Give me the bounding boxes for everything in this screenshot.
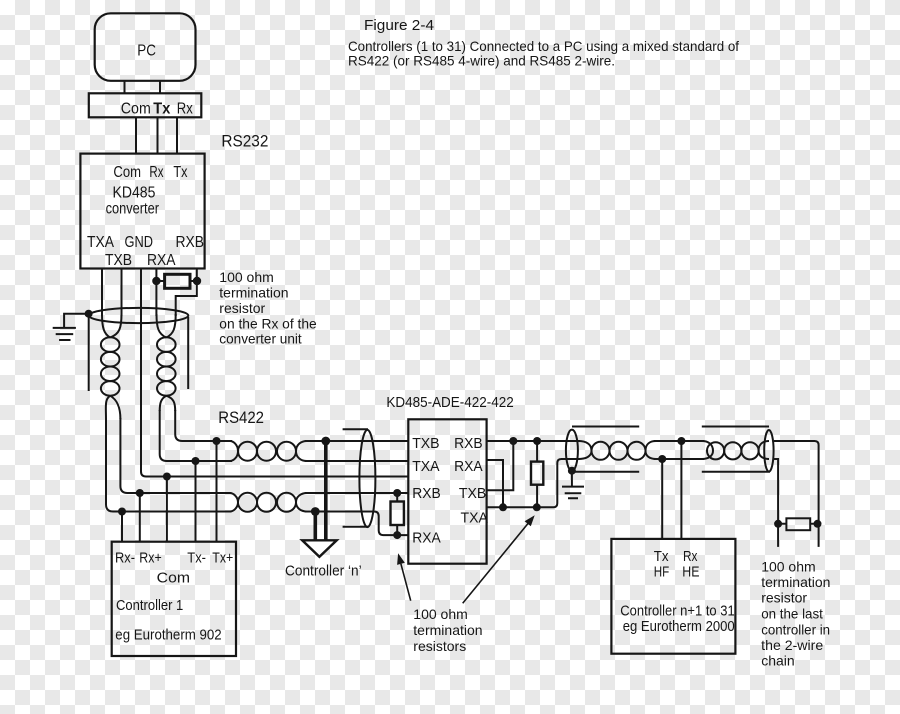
cable ellipse E3 — [566, 430, 578, 471]
resistor R1 stubs — [156, 280, 197, 282]
ground G1 — [53, 328, 76, 340]
twisted pair TP2 (Rx pair) — [157, 337, 176, 352]
svg-text:converter: converter — [106, 201, 159, 218]
wire RXA dogleg to ADE — [305, 512, 408, 536]
wire tap n+1 lower — [661, 459, 663, 539]
svg-text:RS232: RS232 — [221, 133, 268, 151]
ground G1 wire — [64, 314, 89, 328]
svg-text:HF: HF — [654, 565, 670, 581]
monitor interface box — [89, 93, 202, 117]
svg-text:Controller n+1 to 31: Controller n+1 to 31 — [620, 603, 734, 619]
svg-text:Tx+: Tx+ — [212, 550, 233, 566]
cable ellipse E1 — [89, 308, 189, 323]
svg-text:resistor: resistor — [761, 590, 807, 606]
svg-text:the 2-wire: the 2-wire — [761, 637, 823, 653]
resistor R2 100 ohm — [391, 502, 404, 526]
svg-text:Com: Com — [157, 571, 190, 587]
controller n tap thick wires — [315, 441, 326, 540]
svg-text:on the last: on the last — [761, 606, 823, 622]
svg-text:RXB: RXB — [176, 234, 205, 251]
twisted pair TP6 funnel right — [759, 441, 769, 459]
twisted pair TP4 funnel left — [230, 493, 238, 512]
svg-text:Tx: Tx — [153, 101, 170, 118]
svg-text:eg Eurotherm 2000: eg Eurotherm 2000 — [623, 619, 735, 635]
svg-text:RXA: RXA — [147, 252, 176, 269]
svg-text:Rx: Rx — [683, 549, 698, 565]
svg-text:100 ohm: 100 ohm — [413, 606, 467, 622]
ground G2 — [562, 487, 584, 499]
svg-text:Controller 1: Controller 1 — [116, 598, 183, 614]
wire RXB upper bus — [120, 418, 231, 493]
svg-text:Tx: Tx — [173, 164, 187, 181]
svg-text:TXA: TXA — [461, 509, 488, 526]
svg-text:HE: HE — [682, 565, 699, 581]
svg-text:controller in: controller in — [761, 621, 830, 637]
ground G2 riser — [571, 470, 573, 487]
wire pin TXA — [101, 269, 103, 317]
wire RXA lower bus — [106, 418, 231, 512]
resistor R4 100 ohm — [786, 518, 810, 530]
svg-text:PC: PC — [137, 43, 156, 60]
svg-text:eg Eurotherm 902: eg Eurotherm 902 — [115, 627, 221, 643]
twisted pair TP3 funnel left — [230, 441, 238, 461]
svg-text:Tx-: Tx- — [187, 550, 206, 566]
wire branch Tx+ — [216, 441, 218, 542]
svg-text:RXB: RXB — [412, 485, 441, 502]
svg-text:Rx+: Rx+ — [139, 550, 161, 566]
twisted pair TP3 (Tx horizontal) — [238, 442, 257, 461]
svg-text:converter unit: converter unit — [219, 331, 301, 347]
svg-text:TXB: TXB — [105, 252, 132, 269]
annotation arrow A1 — [401, 564, 411, 601]
KD485 converter box U1 — [80, 154, 204, 269]
cable ellipse E2 ticks — [343, 429, 368, 527]
resistor R1 100 ohm — [165, 274, 190, 288]
twisted pair TP5 funnel right — [646, 441, 657, 459]
cable sheath ticks A — [572, 427, 639, 472]
resistor R2 stubs — [396, 493, 398, 535]
wire TXB bus — [175, 410, 232, 441]
wire PC stub right — [159, 81, 161, 94]
wire TXA right riser — [487, 459, 580, 507]
svg-text:GND: GND — [125, 234, 154, 251]
wire TXB-RXB link — [487, 441, 514, 490]
svg-text:termination: termination — [413, 622, 482, 638]
wire pin RXA — [155, 269, 157, 317]
svg-text:RXA: RXA — [454, 458, 483, 475]
wire TXA bus — [160, 410, 232, 461]
svg-text:TXB: TXB — [412, 435, 439, 452]
svg-text:Controller ‘n’: Controller ‘n’ — [285, 564, 362, 580]
svg-text:TXB: TXB — [459, 485, 486, 502]
PC box — [95, 13, 196, 81]
svg-text:Com: Com — [113, 164, 141, 181]
resistor R3 100 ohm — [531, 462, 543, 485]
svg-text:on the Rx of the: on the Rx of the — [219, 316, 317, 332]
wire RXA-TXA link — [487, 460, 503, 507]
wire bus upper right bend — [774, 441, 819, 547]
twisted pair TP2 funnel top — [157, 314, 176, 338]
wire bus upper mid — [654, 440, 704, 442]
wire tap n+1 upper — [680, 441, 682, 539]
svg-text:Com: Com — [121, 101, 151, 118]
twisted pair TP4 funnel right — [296, 493, 307, 512]
wire RXB right — [487, 440, 580, 442]
svg-text:100 ohm: 100 ohm — [219, 269, 273, 285]
svg-text:TXA: TXA — [87, 234, 115, 251]
svg-text:RXA: RXA — [412, 530, 441, 547]
wire branch Rx+ — [139, 493, 141, 542]
svg-text:RS422: RS422 — [218, 409, 264, 427]
cable sheath ticks B — [702, 427, 770, 472]
svg-text:KD485: KD485 — [113, 185, 156, 202]
cable ellipse E2 — [359, 430, 375, 527]
annotation arrow A2 — [463, 524, 528, 604]
wire branch Tx- — [195, 461, 197, 542]
wire pin TXB — [121, 269, 123, 317]
svg-text:resistor: resistor — [219, 300, 265, 316]
wire pin RXB dogleg — [176, 269, 197, 317]
svg-text:termination: termination — [761, 574, 830, 590]
twisted pair TP2 funnel bottom — [160, 396, 176, 411]
svg-text:Rx: Rx — [177, 101, 193, 118]
twisted pair TP1 (Tx pair) — [101, 337, 120, 352]
twisted pair TP4 (Rx horizontal) — [238, 493, 257, 512]
controller 1 box — [112, 542, 236, 656]
KD485-ADE box U2 — [408, 419, 486, 563]
resistor R4 stubs — [778, 523, 819, 525]
svg-text:Tx: Tx — [654, 549, 669, 565]
wire branch Com — [166, 477, 168, 542]
svg-text:Rx: Rx — [149, 164, 163, 181]
wire screen stub left — [88, 317, 90, 391]
twisted pair TP6 — [707, 442, 724, 459]
svg-text:resistors: resistors — [413, 638, 466, 654]
wire screen stub right — [187, 317, 189, 389]
svg-text:RXB: RXB — [454, 435, 483, 452]
wire bus lower mid — [654, 458, 704, 460]
twisted pair TP5 — [592, 442, 610, 460]
wire bus lower right bend — [774, 459, 778, 547]
twisted pair TP3 funnel right — [296, 441, 307, 461]
wire TXA to ADE — [305, 460, 408, 462]
twisted pair TP6 funnel left — [702, 441, 713, 459]
wire PC stub left — [124, 81, 126, 94]
svg-text:TXA: TXA — [412, 458, 439, 475]
twisted pair TP5 funnel left — [578, 441, 592, 459]
svg-text:Figure 2-4: Figure 2-4 — [364, 18, 434, 34]
twisted pair TP1 funnel bottom — [106, 396, 121, 419]
svg-text:KD485-ADE-422-422: KD485-ADE-422-422 — [386, 395, 513, 411]
wire Com — [135, 117, 137, 153]
wire pin GND/Com — [141, 269, 408, 477]
svg-text:termination: termination — [219, 285, 288, 301]
wire TXB to ADE — [305, 440, 408, 442]
controller n+1 box — [611, 539, 735, 654]
wire branch Rx- — [121, 512, 123, 542]
controller n arrow — [302, 540, 337, 557]
wire RXB to ADE — [305, 492, 408, 494]
svg-text:100 ohm: 100 ohm — [761, 558, 815, 574]
svg-text:RS422 (or RS485 4-wire) and RS: RS422 (or RS485 4-wire) and RS485 2-wire… — [348, 53, 615, 69]
svg-text:Rx-: Rx- — [115, 550, 135, 566]
wire Rx — [176, 117, 178, 153]
resistor R3 stubs — [536, 441, 538, 507]
twisted pair TP1 funnel top — [102, 314, 122, 338]
cable ellipse E4 — [764, 430, 773, 472]
wire Tx — [157, 117, 159, 153]
svg-text:chain: chain — [761, 653, 794, 669]
